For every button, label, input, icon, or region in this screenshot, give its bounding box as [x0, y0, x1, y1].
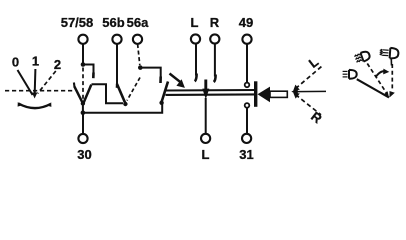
actuating arrow (diagonal) — [170, 74, 185, 88]
junction dot on 56a stem — [138, 65, 143, 70]
rotation arc arrow of headlamp selector — [376, 69, 389, 77]
terminal circle 56a — [133, 35, 142, 44]
wire 57/58 stem — [82, 44, 84, 65]
lever pivot arrowhead — [291, 89, 298, 95]
lever middle line — [296, 90, 326, 92]
lever down dashed (R direction) — [293, 93, 321, 115]
headlamp symbol position 0 (lower left) — [343, 70, 357, 79]
switch arm to slider bar — [161, 82, 168, 103]
svg-text:30: 30 — [77, 147, 91, 162]
slider push rod tail — [270, 91, 287, 97]
radius dashed to headlamp position 2 — [390, 64, 395, 98]
small contact circle 49 above bar — [245, 83, 250, 88]
wire wiper to terminal L bottom — [205, 98, 207, 134]
svg-text:57/58: 57/58 — [61, 15, 94, 30]
wire L top contact — [195, 43, 197, 75]
svg-text:L: L — [191, 15, 199, 30]
wire bus to terminal 30 — [82, 113, 84, 135]
svg-text:2: 2 — [54, 57, 61, 72]
wire jumper from 57/58 junction to fixed contact — [83, 65, 94, 74]
svg-text:31: 31 — [239, 147, 253, 162]
junction dot 56b contact — [123, 102, 127, 106]
svg-text:1: 1 — [32, 54, 39, 69]
junction dot at bus riser — [159, 101, 163, 105]
terminal circle 49 — [242, 35, 251, 44]
rotary selector position-1 pointer — [32, 69, 38, 99]
slider wiper stem — [204, 80, 207, 90]
wire 56a stem (dashed) — [138, 44, 140, 65]
turn-signal slider bar upper rail — [166, 89, 257, 92]
radius solid to headlamp position 0 — [357, 79, 389, 97]
svg-text:R: R — [210, 15, 220, 30]
wire 31 stem — [246, 108, 248, 134]
rotation arc arrow of rotary selector — [18, 102, 52, 108]
headlamp symbol position 1 (upper middle) — [354, 50, 371, 64]
rotary selector position-2 ray (dashed) — [38, 71, 56, 94]
junction dot at bus left — [81, 110, 86, 115]
junction dot at 57/58 fork apex — [81, 101, 85, 105]
radius dashed to headlamp position 1 — [367, 64, 389, 98]
wire 49 stem — [246, 44, 248, 83]
switch arm 56b (moving contact) — [117, 84, 125, 103]
rotary selector position-0 ray — [18, 70, 33, 95]
fixed contact tip of 57/58 jumper — [92, 73, 95, 79]
svg-text:49: 49 — [239, 15, 253, 30]
wire bracket from fork to 56b contact dot — [92, 84, 124, 103]
junction dot on 57/58 stem — [81, 62, 86, 67]
terminal circle 31 — [242, 134, 251, 143]
wire bus horizontal — [83, 103, 162, 113]
contact tip L top — [195, 74, 197, 82]
wire R top contact — [214, 43, 216, 76]
mechanical coupling dashed line to contacts — [5, 90, 73, 92]
lever up dashed (L direction) — [293, 67, 321, 91]
terminal circle L bottom — [201, 134, 210, 143]
contact tip R top — [214, 75, 216, 83]
switch contact arm right (57/58 fork right) — [84, 85, 92, 103]
terminal circle 57/58 — [78, 35, 87, 44]
turn-signal slider bar lower rail — [166, 93, 257, 96]
small contact circle 31 below bar — [245, 103, 250, 108]
terminal circle L top — [191, 34, 200, 43]
terminal circle R top — [210, 34, 219, 43]
switch contact arm left (57/58 fork left) — [74, 86, 82, 103]
stem under headlamp position 2 — [390, 59, 392, 66]
slider contact plate — [254, 81, 257, 107]
dashed link 56a-to-56b arm — [127, 78, 140, 101]
wire 56b stem — [116, 44, 118, 84]
terminal circle 56b — [112, 35, 121, 44]
wire fork apex to bus — [82, 104, 84, 113]
slider push arrowhead — [258, 87, 271, 103]
headlamp symbol position 2 (top right) — [380, 47, 399, 59]
dashed actuator line of 57/58 contact — [82, 68, 84, 101]
svg-text:L: L — [202, 147, 210, 162]
terminal circle 30 — [78, 134, 87, 143]
fixed contact tip of 56a jumper — [159, 77, 162, 84]
wire jumper 56a to fixed contact — [140, 68, 160, 77]
svg-text:56a: 56a — [127, 15, 149, 30]
slider wiper arrowhead — [202, 89, 209, 100]
svg-text:0: 0 — [12, 55, 19, 70]
svg-text:56b: 56b — [102, 15, 124, 30]
